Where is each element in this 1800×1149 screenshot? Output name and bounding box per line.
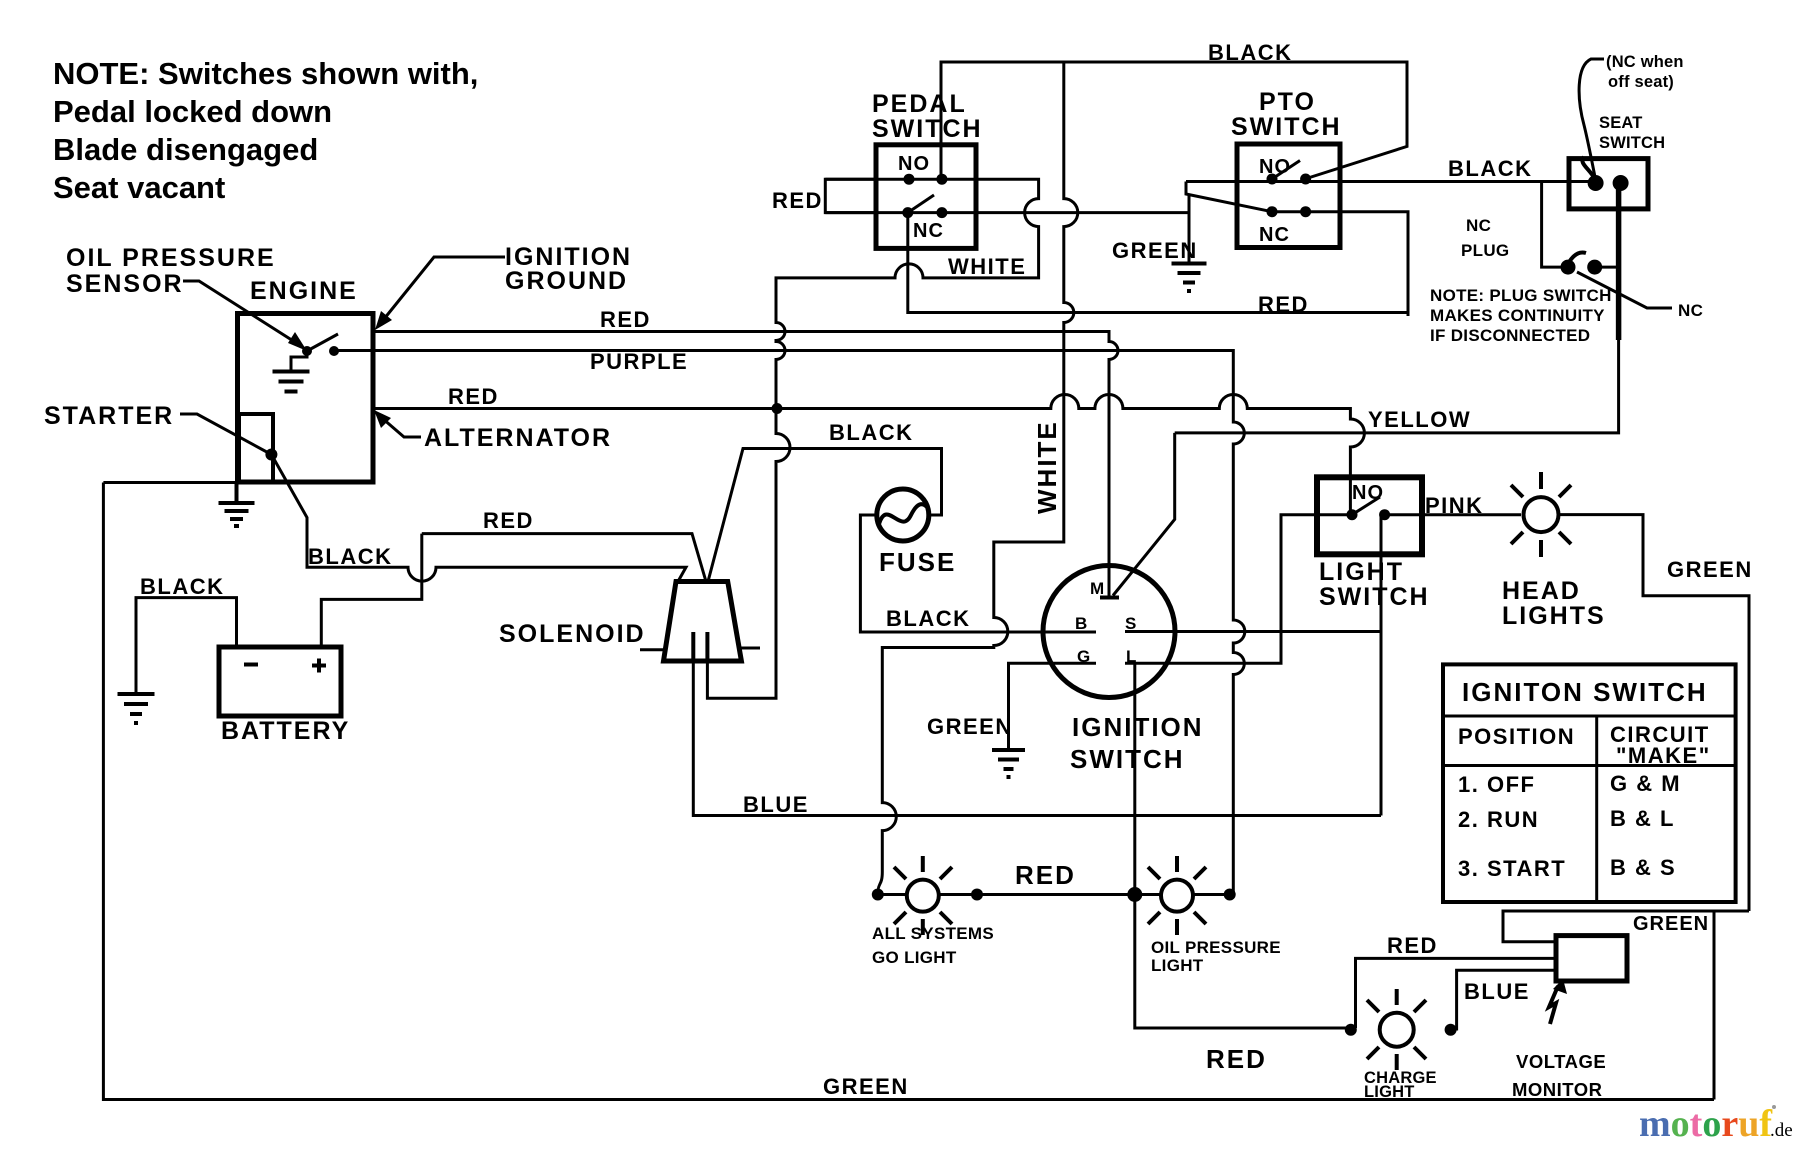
svg-text:PEDAL: PEDAL [872, 90, 967, 118]
svg-text:SEAT: SEAT [1599, 114, 1643, 132]
svg-text:RED: RED [600, 307, 651, 332]
wire: lamp row red [878, 893, 1161, 896]
svg-text:IGNITON SWITCH: IGNITON SWITCH [1462, 677, 1708, 707]
svg-text:PLUG: PLUG [1461, 241, 1509, 260]
wire: pink to head lights [1385, 513, 1521, 516]
svg-text:1. OFF: 1. OFF [1458, 772, 1535, 797]
pointer from ignition ground label to engine corner [375, 257, 505, 330]
svg-text:OIL PRESSURE: OIL PRESSURE [66, 244, 276, 272]
svg-text:HEAD: HEAD [1502, 577, 1581, 605]
wire: yellow elbow down to ignition M [1113, 433, 1175, 596]
ground (ignition green) [992, 750, 1025, 777]
svg-text:OIL PRESSURE: OIL PRESSURE [1151, 938, 1281, 957]
wire: red from riser to solenoid [422, 534, 706, 582]
pedal NC contacts and arm [902, 195, 947, 218]
svg-text:GROUND: GROUND [505, 267, 628, 295]
svg-text:PURPLE: PURPLE [590, 349, 688, 374]
svg-text:3. START: 3. START [1458, 856, 1566, 881]
svg-text:SWITCH: SWITCH [1319, 583, 1430, 611]
ground (battery) [118, 694, 155, 723]
svg-text:SENSOR: SENSOR [66, 270, 184, 298]
wire: red (alternator) across to light switch [373, 395, 1364, 515]
fuse [877, 489, 929, 541]
pto NO contacts and arm [1267, 161, 1312, 185]
junction dot (L wire at lamp row) [1127, 887, 1142, 902]
ground (oil sensor) [273, 372, 310, 392]
svg-text:GREEN: GREEN [1633, 913, 1709, 935]
svg-text:off seat): off seat) [1608, 73, 1674, 91]
svg-text:BATTERY: BATTERY [221, 717, 350, 745]
wire: oil lamp right stub [1193, 893, 1230, 896]
wire: red into voltage monitor [1356, 958, 1557, 1028]
igniton switch table [1443, 664, 1736, 902]
svg-text:IGNITION: IGNITION [1072, 712, 1204, 742]
wire: purple from sensor to oil pressure light right side [334, 351, 1245, 896]
wire: red from pedal NC-left down and right to PTO NC [908, 212, 1408, 313]
svg-text:SWITCH: SWITCH [1070, 744, 1185, 774]
wire: G terminal to ground [1009, 663, 1097, 749]
svg-text:BLUE: BLUE [743, 792, 809, 817]
svg-text:"MAKE": "MAKE" [1616, 743, 1711, 768]
pto switch box [1237, 144, 1340, 248]
svg-text:2. RUN: 2. RUN [1458, 807, 1539, 832]
svg-text:NOTE: Switches shown with,: NOTE: Switches shown with, [53, 56, 478, 91]
battery terminals symbols [244, 659, 326, 673]
svg-text:MAKES CONTINUITY: MAKES CONTINUITY [1430, 306, 1605, 325]
svg-text:BLACK: BLACK [140, 574, 225, 599]
solenoid [664, 582, 742, 662]
svg-text:LIGHTS: LIGHTS [1502, 602, 1606, 630]
svg-text:NC: NC [1466, 216, 1491, 235]
ignition switch circle [1043, 566, 1175, 698]
svg-text:BLACK: BLACK [1208, 40, 1293, 65]
wire: pto ground stub [1188, 194, 1191, 263]
svg-text:PTO: PTO [1259, 88, 1316, 116]
wire: battery positive to red riser [321, 534, 422, 647]
wire: red (engine top) to ignition M vertical [373, 332, 1118, 598]
svg-text:G & M: G & M [1610, 771, 1681, 796]
svg-text:POSITION: POSITION [1458, 724, 1575, 749]
light switch contacts and arm [1347, 497, 1391, 520]
wire: blue from solenoid to S vertical [693, 661, 1381, 816]
wire: black engine to fuse [708, 449, 942, 582]
svg-text:FUSE: FUSE [879, 547, 956, 577]
svg-text:PINK: PINK [1425, 493, 1484, 518]
svg-text:ALTERNATOR: ALTERNATOR [424, 424, 612, 452]
svg-text:WHITE: WHITE [948, 254, 1026, 279]
svg-text:B & S: B & S [1610, 855, 1676, 880]
wire: pto left stub down to NC left contact [1186, 182, 1272, 212]
svg-text:NC: NC [1678, 301, 1703, 320]
svg-text:BLUE: BLUE [1464, 979, 1530, 1004]
svg-text:NOTE: PLUG SWITCH: NOTE: PLUG SWITCH [1430, 286, 1612, 305]
svg-text:BLACK: BLACK [1448, 156, 1533, 181]
ignition M terminal bar [1100, 596, 1119, 600]
pointer from starter label to starter box [180, 414, 277, 461]
wire: top rail black from pedal to PTO [941, 62, 1407, 179]
wire: yellow from ignition area to seat switch [1175, 183, 1619, 433]
svg-text:RED: RED [483, 508, 534, 533]
svg-text:GREEN: GREEN [1667, 557, 1753, 582]
wire: fuse left to ignition B [860, 515, 1096, 632]
svg-text:SOLENOID: SOLENOID [499, 620, 646, 648]
engine box [238, 314, 374, 483]
bolt pointer to voltage monitor [1549, 979, 1567, 1024]
svg-text:SWITCH: SWITCH [872, 115, 983, 143]
svg-text:GREEN: GREEN [1112, 238, 1198, 263]
svg-text:GREEN: GREEN [927, 714, 1013, 739]
oil pressure light [1148, 856, 1236, 935]
wire: light switch right vertical down to blue [1380, 515, 1383, 816]
starter box [239, 414, 273, 482]
svg-text:M: M [1090, 579, 1104, 598]
svg-text:STARTER: STARTER [44, 402, 174, 430]
motoruf logo [1639, 1103, 1793, 1145]
svg-text:B: B [1075, 614, 1087, 633]
wire: pedal NC row to PTO ground junction [825, 211, 1189, 214]
wire: engine bottom to left rail [103, 481, 237, 484]
wire: seat NC plug drop [1542, 182, 1568, 268]
svg-text:Blade disengaged: Blade disengaged [53, 132, 318, 167]
svg-text:VOLTAGE: VOLTAGE [1516, 1051, 1606, 1072]
pointer from note to seat contact [1579, 59, 1604, 180]
ground (pto) [1172, 264, 1207, 292]
NC pointer and label [1577, 272, 1672, 308]
svg-text:YELLOW: YELLOW [1368, 407, 1471, 432]
pedal NO contacts [904, 174, 948, 185]
wire: black from starter to solenoid [271, 455, 686, 582]
svg-text:RED: RED [1206, 1044, 1267, 1074]
svg-text:motoruf: motoruf [1639, 1103, 1773, 1145]
svg-text:RED: RED [1258, 292, 1309, 317]
seat switch box [1569, 159, 1648, 209]
wire: blue into voltage monitor [1451, 970, 1556, 1029]
junction dot (white tap on red wire) [772, 403, 783, 414]
svg-text:LIGHT: LIGHT [1319, 558, 1404, 586]
svg-text:Seat vacant: Seat vacant [53, 170, 225, 205]
svg-text:LIGHT: LIGHT [1151, 956, 1204, 975]
svg-text:GO LIGHT: GO LIGHT [872, 948, 957, 967]
all systems go light [872, 856, 983, 935]
wire: pto NC row to right and down to red wire [1272, 212, 1408, 316]
solenoid side stubs [640, 648, 760, 650]
svg-text:Pedal locked down: Pedal locked down [53, 94, 332, 129]
wire: S terminal to light switch right [1125, 630, 1381, 633]
svg-text:NC: NC [913, 220, 944, 242]
wire: seat switch right vertical (thick) [1616, 183, 1622, 340]
seat switch contacts and arm [1582, 157, 1628, 191]
wire: L drop to charge light [1135, 663, 1351, 1028]
svg-text:RED: RED [1387, 933, 1438, 958]
svg-text:SWITCH: SWITCH [1231, 113, 1342, 141]
svg-text:B & L: B & L [1610, 806, 1675, 831]
svg-text:NC: NC [1259, 224, 1290, 246]
svg-text:IF DISCONNECTED: IF DISCONNECTED [1430, 326, 1590, 345]
svg-text:BLACK: BLACK [829, 420, 914, 445]
battery box [219, 647, 341, 716]
charge light lamp [1345, 989, 1457, 1070]
pedal switch box [876, 145, 976, 249]
svg-text:BLACK: BLACK [308, 544, 393, 569]
wire: L terminal to light switch left [1125, 515, 1352, 664]
ground (engine, below left edge) [219, 482, 255, 526]
pto NC contacts [1267, 206, 1312, 217]
svg-text:MONITOR: MONITOR [1512, 1079, 1603, 1100]
light switch box [1317, 477, 1422, 554]
NC plug contacts and arm [1561, 252, 1603, 274]
note text block top-left [53, 56, 478, 205]
svg-text:ALL SYSTEMS: ALL SYSTEMS [872, 924, 994, 943]
svg-text:ENGINE: ENGINE [250, 277, 358, 305]
wire: white drop from top rail to all-systems-go light [878, 62, 1078, 894]
voltage monitor box [1556, 936, 1627, 981]
wire: green right side down to bottom [1713, 911, 1716, 1100]
wire: white from pedal NO row down to solenoid right pin [707, 179, 1038, 698]
svg-text:LIGHT: LIGHT [1364, 1083, 1415, 1101]
svg-text:NO: NO [1352, 482, 1384, 504]
svg-text:RED: RED [772, 188, 823, 213]
wire: NC plug right to seat vertical [1595, 266, 1619, 269]
wire: pedal feed loop (RED) [825, 179, 876, 212]
svg-text:GREEN: GREEN [823, 1074, 909, 1099]
solenoid pins [693, 632, 707, 661]
svg-text:BLACK: BLACK [886, 606, 971, 631]
svg-text:RED: RED [1015, 860, 1076, 890]
head lights lamp [1511, 472, 1571, 557]
oil pressure sensor (switch inside engine) [291, 334, 339, 371]
svg-text:(NC when: (NC when [1606, 53, 1684, 71]
wire: green loop below table to voltage monitor [1503, 911, 1749, 942]
pointer from alternator label to engine edge [374, 410, 421, 437]
svg-text:NO: NO [898, 153, 930, 175]
wire: pto NO row and black to seat switch [1186, 180, 1596, 183]
wire: green from head lights down right side [1559, 515, 1750, 911]
wire: battery negative to ground [136, 598, 237, 693]
svg-text:WHITE: WHITE [1032, 420, 1062, 514]
svg-text:SWITCH: SWITCH [1599, 134, 1665, 152]
svg-text:RED: RED [448, 384, 499, 409]
svg-text:.de: .de [1770, 1120, 1793, 1141]
pointer from sensor label to sensor [183, 281, 307, 351]
wire: bottom green run [103, 483, 1714, 1100]
